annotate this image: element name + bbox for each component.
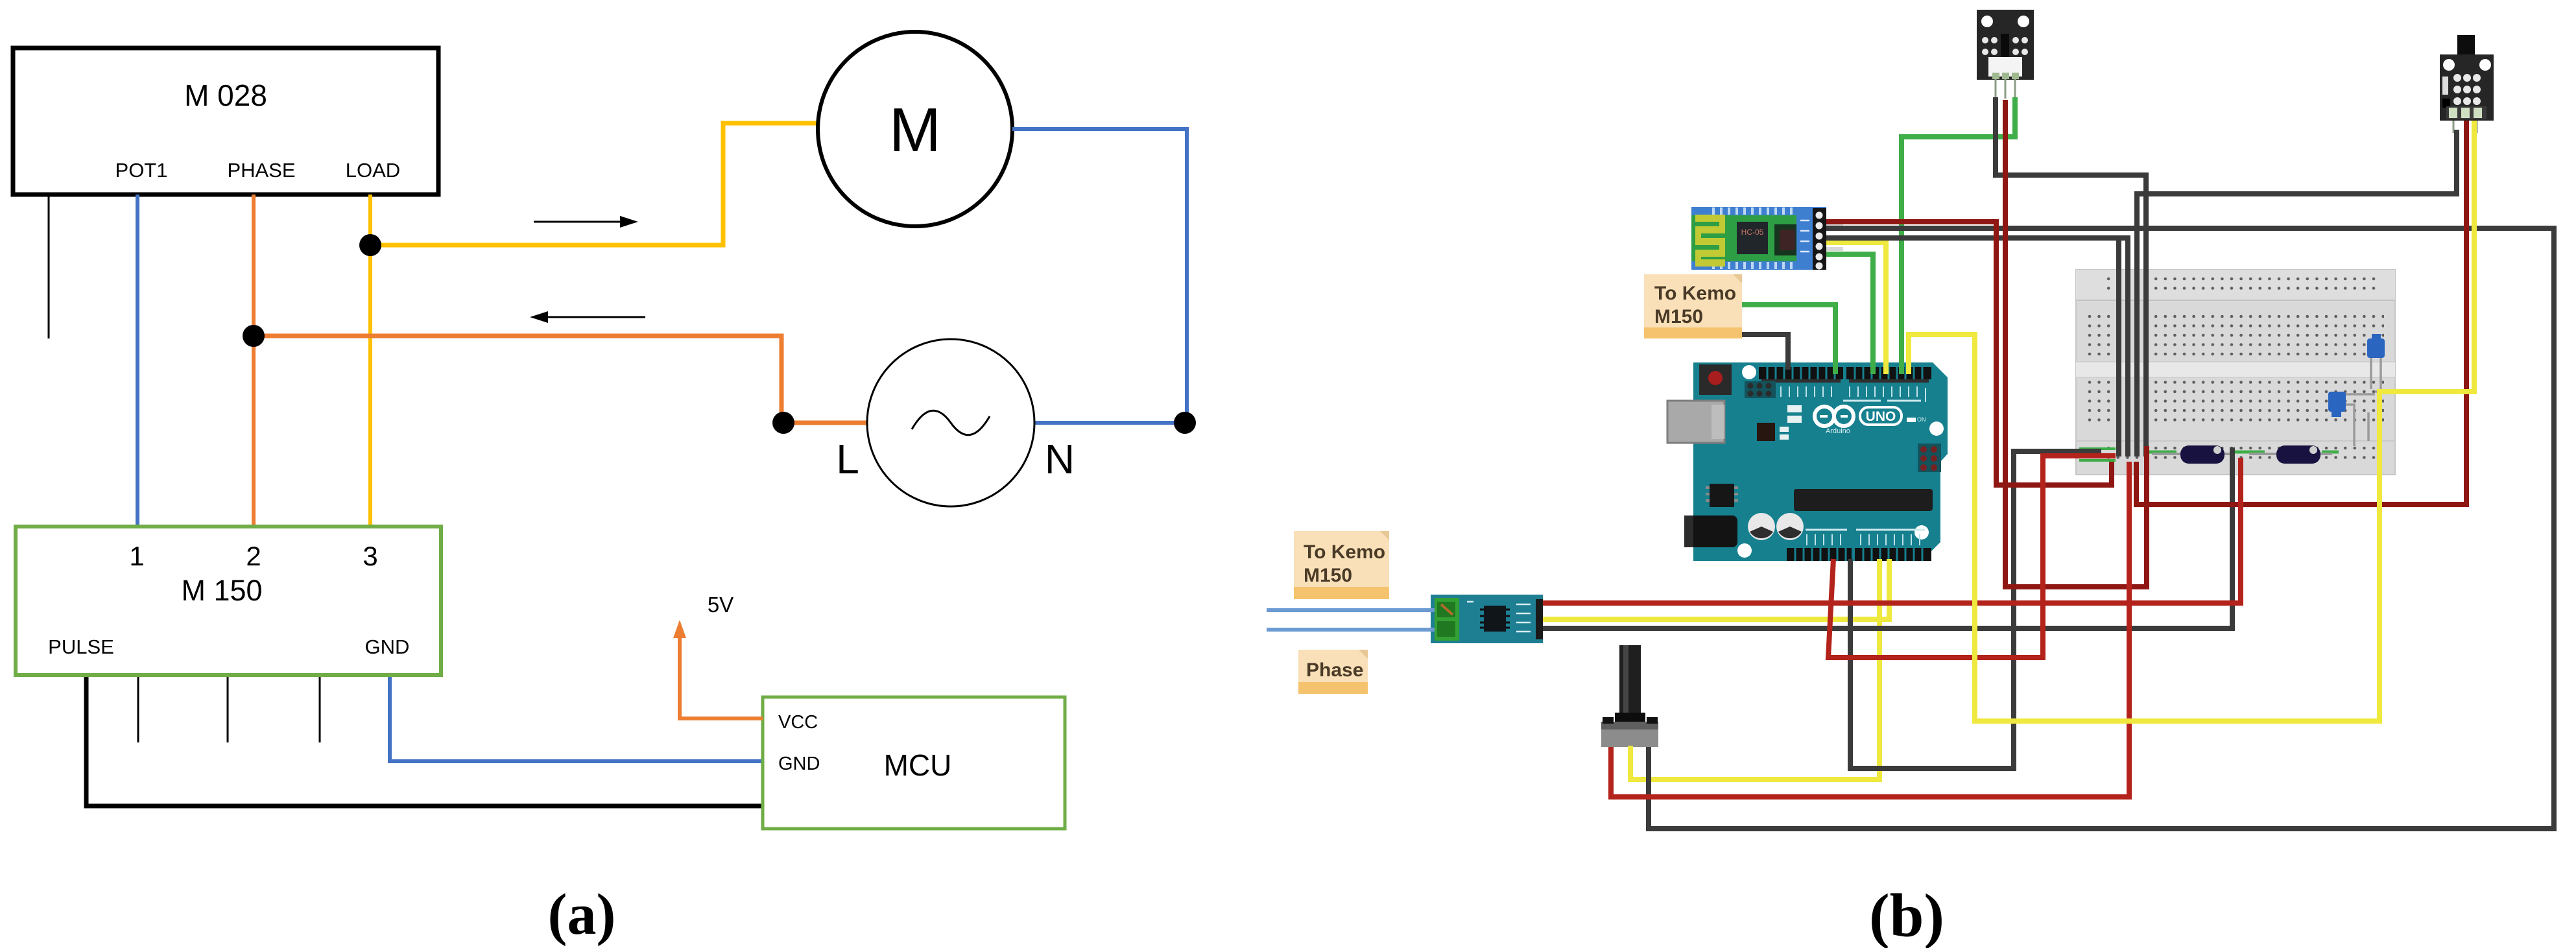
arrow right (current direction)	[534, 221, 626, 223]
svg-text:GND: GND	[778, 753, 820, 774]
bottom pin header right	[1855, 548, 1931, 561]
svg-text:HC-05: HC-05	[1741, 228, 1764, 237]
svg-text:VCC: VCC	[778, 712, 818, 733]
junction dot PHASE	[243, 325, 265, 347]
svg-text:M 150: M 150	[181, 574, 262, 607]
wire black note1 to arduino	[1742, 335, 1788, 370]
svg-text:PHASE: PHASE	[227, 159, 295, 182]
stub pin below M150 b	[227, 677, 229, 742]
arrow left (current direction)	[542, 316, 645, 318]
svg-text:5V: 5V	[708, 593, 733, 617]
svg-text:ON: ON	[1917, 416, 1926, 423]
wire orange 5V to VCC	[680, 632, 763, 718]
svg-text:Phase: Phase	[1306, 659, 1363, 681]
svg-text:GND: GND	[365, 635, 410, 658]
capacitor C1 on breadboard	[2152, 445, 2235, 464]
transistor on top	[2457, 35, 2475, 55]
breadboard	[2076, 270, 2395, 475]
wire black BT to breadboard (double)	[1826, 238, 2128, 456]
wire blue GND to MCU	[390, 677, 763, 761]
chips	[1737, 222, 1768, 254]
wire blue pair to phase module	[1267, 608, 1435, 612]
AC sine symbol	[912, 410, 990, 435]
svg-text:LOAD: LOAD	[346, 159, 400, 182]
sensor module S2 (hall, top right)	[2440, 35, 2494, 133]
svg-text:1: 1	[129, 541, 144, 571]
socket strip	[1794, 489, 1933, 511]
wire dark red BT to breadboard rail	[1826, 222, 2112, 485]
wire yellow phase module to arduino	[1543, 559, 1889, 619]
wire blue motor to N	[1012, 129, 1187, 423]
sticky note 3: Phase	[1298, 650, 1368, 694]
svg-text:2: 2	[246, 541, 261, 571]
wire yellow big loop arduino-breadboard-sensor2	[1909, 121, 2474, 721]
arrowhead 5V	[673, 620, 686, 638]
trimmer capacitor blue T1	[2367, 334, 2385, 392]
svg-text:MCU: MCU	[884, 748, 952, 782]
ICSP2 header	[1918, 444, 1941, 472]
top header pins	[1761, 379, 1929, 383]
sensor2 legs	[2453, 121, 2477, 133]
svg-text:PULSE: PULSE	[48, 635, 114, 658]
HC-05 bluetooth module	[1691, 207, 1843, 270]
svg-text:M 028: M 028	[184, 78, 267, 112]
antenna traces	[1695, 215, 1725, 267]
bottom silkscreen	[1806, 529, 1925, 531]
wire black BT to right edge to potentiometer	[1649, 228, 2554, 829]
wire blue POT1 to M150 pin1	[136, 195, 139, 527]
wire dark red breadboard rail to sensor2	[2136, 121, 2466, 504]
svg-text:L: L	[836, 436, 859, 482]
svg-text:Arduino: Arduino	[1826, 427, 1850, 435]
junction dot L	[772, 412, 794, 434]
svg-text:To Kemo: To Kemo	[1304, 541, 1385, 563]
Arduino UNO board	[1667, 362, 1948, 561]
top pin header right	[1846, 367, 1931, 379]
svg-text:M: M	[889, 95, 941, 165]
electrolytic caps	[1748, 513, 1775, 540]
stub pin below M150 c	[319, 677, 321, 742]
sensor1 legs	[1996, 79, 2015, 99]
mounting holes	[1742, 365, 1756, 379]
power jack	[1684, 515, 1737, 547]
svg-text:UNO: UNO	[1866, 409, 1896, 424]
svg-text:M150: M150	[1654, 306, 1703, 327]
box MCU	[763, 697, 1065, 829]
ICSP1 header	[1745, 381, 1776, 398]
junction dot N	[1174, 412, 1196, 434]
svg-text:M150: M150	[1304, 565, 1352, 586]
castellation top	[1691, 207, 1826, 215]
small ic	[1757, 423, 1775, 441]
box M028	[13, 48, 438, 195]
right blue area	[1796, 215, 1826, 261]
sticky note 2: To Kemo M150 (left)	[1294, 531, 1389, 599]
potentiometer	[1601, 645, 1658, 747]
box M150	[16, 527, 441, 675]
wire red arduino to breadboard	[1828, 456, 2116, 658]
wire dark red sensor1 down to breadboard	[2005, 100, 2147, 587]
wire blue source N to junction	[1034, 421, 1185, 425]
wire yellow potentiometer to arduino	[1630, 559, 1879, 779]
arduino logo	[1815, 407, 1854, 426]
wire red potentiometer	[1611, 462, 2129, 797]
wire yellow LOAD to motor	[370, 123, 817, 245]
phase detector module	[1431, 595, 1543, 643]
wire green sensor1 to arduino	[1902, 97, 2015, 374]
svg-text:3: 3	[363, 541, 377, 571]
UNO badge	[1860, 407, 1902, 425]
svg-text:POT1: POT1	[115, 159, 168, 182]
wire orange PHASE to M150 pin2	[252, 195, 256, 527]
wire black sensor1 to breadboard	[1996, 97, 2146, 456]
wire yellow BT to arduino	[1826, 243, 1886, 374]
smd parts	[1780, 405, 1802, 440]
top pin header left	[1759, 367, 1843, 379]
svg-text:To Kemo: To Kemo	[1654, 283, 1736, 304]
svg-text:N: N	[1045, 436, 1075, 482]
wire black PULSE to MCU	[86, 677, 763, 806]
wire black phase module to breadboard	[1543, 447, 2232, 628]
reset button	[1699, 364, 1732, 395]
sticky note 1: To Kemo M150 (top)	[1644, 274, 1742, 338]
wire red phase module to breadboard	[1543, 458, 2241, 603]
motor M circle	[818, 32, 1012, 226]
svg-text:(b): (b)	[1869, 881, 1944, 948]
junction dot LOAD	[359, 234, 381, 256]
sensor module S1 (optical, top center)	[1977, 10, 2034, 99]
wire orange PHASE to source L	[254, 336, 867, 423]
terminal pads	[2446, 106, 2487, 119]
pin labels strip	[1764, 386, 1926, 402]
wire black stub from M028 left	[48, 195, 50, 338]
header comb separators	[1767, 367, 1922, 379]
USB connector	[1667, 401, 1724, 443]
wire black sensor2 to breadboard	[2137, 130, 2457, 456]
wire yellow LOAD to M150 pin3	[368, 195, 372, 527]
AC source circle	[867, 339, 1034, 506]
wire green BT to arduino	[1826, 254, 1873, 374]
svg-text:(a): (a)	[548, 883, 616, 947]
pin strip	[1813, 208, 1826, 270]
capacitor C2 on breadboard	[2249, 445, 2332, 464]
trimmer capacitor blue T2	[2328, 392, 2375, 446]
left chip	[1710, 484, 1734, 507]
bottom pin header left	[1787, 548, 1852, 561]
wire green note1 to arduino	[1742, 305, 1835, 374]
bottom header comb	[1795, 548, 1922, 561]
stub pin below M150 a	[137, 677, 139, 742]
wire black arduino to breadboard left	[1850, 451, 2101, 768]
green rail dashes on breadboard bottom	[2079, 449, 2339, 460]
